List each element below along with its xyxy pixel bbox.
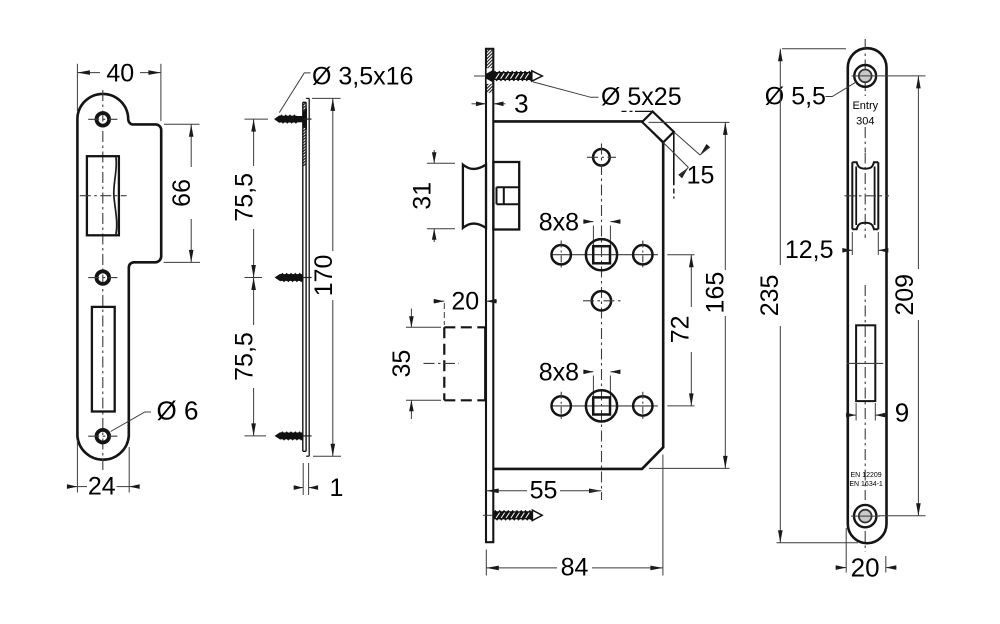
screw S5 threads: [493, 510, 542, 521]
strike plate lower slot cutout: [92, 307, 115, 412]
svg-text:235: 235: [756, 275, 784, 317]
dimension 235 extension lines: [777, 49, 859, 543]
label diameter 5x25: [601, 83, 682, 111]
faceplate latch top curve: [852, 162, 878, 169]
dimension 75,5 upper line: [251, 119, 256, 277]
svg-text:165: 165: [702, 272, 730, 314]
follower F1 horizontal line: [551, 254, 658, 256]
svg-text:24: 24: [88, 473, 116, 501]
label diameter 6: [157, 396, 199, 426]
dimension 170 extension lines: [312, 98, 341, 456]
screw S2 threads: [275, 273, 304, 282]
hole H1 crosshair: [587, 156, 616, 158]
strike plate outline: [77, 94, 161, 460]
dimension 15 extension lines: [663, 132, 700, 167]
follower F2 circle: [586, 390, 617, 421]
dimension 72 label: [666, 315, 694, 343]
label diameter 3,5x16: [312, 63, 413, 91]
svg-text:Ø 5,5: Ø 5,5: [765, 83, 826, 111]
svg-text:12,5: 12,5: [785, 236, 834, 264]
dimension 35 extension lines: [406, 327, 441, 400]
dimension 15 arrows: [678, 144, 710, 178]
dimension 75,5 lower line: [251, 278, 256, 436]
screw hole top crosshair: [88, 118, 117, 120]
dimension 1 extension lines: [303, 463, 308, 495]
faceplate latch crosshair: [845, 195, 890, 197]
svg-text:209: 209: [891, 274, 919, 316]
dimension 1 line: [294, 485, 318, 490]
faceplate latch bottom curve: [852, 223, 878, 230]
dimension 235 label: [756, 275, 784, 317]
follower F2 square: [593, 397, 610, 414]
dimension 66 extension lines: [164, 124, 201, 262]
dimension 20 bottom extension lines: [846, 528, 886, 573]
latch head: [463, 165, 486, 228]
dimension 165 line: [723, 122, 728, 468]
screw S5 centerline tick: [483, 514, 495, 516]
follower F2 horizontal line: [551, 405, 658, 407]
dimension 20 arrows: [433, 299, 497, 304]
svg-text:55: 55: [530, 476, 558, 504]
dimension 20 bottom label: [851, 552, 880, 582]
corner cut ghost vertical line: [673, 132, 675, 199]
follower F1 right circle centerline: [642, 241, 644, 270]
follower F1 square extension lines: [593, 226, 610, 246]
dimension 75,5 lower extension line: [245, 435, 267, 437]
screw S2 axis tick: [303, 277, 311, 279]
dimension 24 line: [67, 484, 140, 489]
screw hole middle crosshair: [88, 277, 117, 279]
dimension 75,5 upper extension lines: [245, 119, 269, 277]
svg-text:8x8: 8x8: [539, 209, 579, 237]
corner piece (15x15 chamfer): [642, 112, 674, 143]
dimension 40 extension lines: [77, 64, 160, 121]
dimension 12,5 arrows: [842, 248, 888, 253]
screw S4 threads: [493, 71, 543, 82]
strike plate latch cutout centerline: [80, 195, 127, 197]
dimension 165 label: [702, 272, 730, 314]
screw S3 axis tick: [303, 435, 311, 437]
label diameter 6 leader: [111, 412, 151, 432]
faceplate section hatch: [487, 43, 493, 99]
svg-text:304: 304: [856, 115, 874, 127]
svg-text:72: 72: [666, 315, 694, 343]
follower F2 left circle centerline: [560, 392, 562, 421]
dimension 209 label: [891, 274, 919, 316]
svg-text:75,5: 75,5: [231, 173, 259, 222]
screw S1 head: [303, 108, 307, 129]
dimension 165 bottom extension line: [649, 467, 730, 469]
svg-text:84: 84: [561, 553, 589, 581]
dimension 31 extension lines: [427, 163, 455, 228]
label EN 1634-1: [849, 481, 883, 488]
dimension 72 line: [689, 255, 694, 406]
dimension 235 line: [778, 49, 783, 543]
deadbolt centerline: [424, 362, 460, 364]
dimension 3 line: [472, 102, 506, 107]
latch body: [493, 162, 519, 230]
side view body plate profile: [303, 102, 306, 451]
svg-text:Entry: Entry: [852, 100, 878, 112]
svg-text:75,5: 75,5: [231, 332, 259, 381]
side view lip plate profile: [306, 98, 309, 456]
svg-text:66: 66: [168, 179, 196, 207]
screw hole top: [97, 113, 110, 126]
faceplate front plate: [486, 49, 493, 542]
dimension 84 line: [486, 566, 663, 571]
screw S3 threads: [275, 431, 304, 440]
dimension 8x8 upper arrows: [583, 219, 620, 224]
corner cut ghost top line: [622, 110, 653, 112]
screw S4 head: [486, 70, 493, 82]
dimension 66 line: [189, 124, 194, 262]
screw hole bottom: [97, 430, 110, 443]
lock case outline: [493, 121, 663, 469]
faceplate latch body sides: [856, 167, 874, 226]
dimension 165 top extension line: [649, 121, 730, 123]
dimension 24 extension lines: [77, 440, 129, 493]
follower F2 right circle centerline: [642, 392, 644, 421]
dimension 75,5 upper label: [231, 173, 259, 222]
dimension 72 extension lines: [667, 255, 694, 406]
strike plate latch cutout: [87, 156, 119, 235]
dimension 35 label: [388, 350, 416, 378]
svg-text:20: 20: [451, 288, 479, 316]
screw S1 threads: [274, 114, 298, 123]
faceplate screw hole bottom crosshair: [851, 515, 880, 517]
faceplate latch cutout sides: [852, 162, 878, 229]
label diameter 5,5 leader: [826, 82, 857, 97]
follower F2 square extension lines: [593, 376, 610, 397]
screw hole bottom crosshair: [88, 435, 117, 437]
dimension 20 extension line: [443, 303, 445, 325]
hole H1 top: [593, 149, 610, 166]
svg-text:EN 1634-1: EN 1634-1: [849, 481, 883, 488]
dimension 55 label: [530, 476, 558, 504]
svg-text:20: 20: [851, 552, 880, 582]
main vertical centerline view3: [601, 144, 603, 501]
svg-text:1: 1: [330, 474, 344, 502]
dimension 9 extension lines: [856, 403, 875, 421]
hole H2 middle: [592, 291, 611, 310]
dimension 12,5 extension lines: [852, 232, 878, 255]
dimension 31 label: [409, 182, 437, 210]
screw S1 axis tick: [303, 118, 311, 120]
dimension 55 line: [486, 489, 601, 494]
dimension 1 label: [330, 474, 344, 502]
dimension 84 label: [561, 553, 589, 581]
follower F1 left circle: [552, 245, 571, 264]
faceplate screw hole bottom: [854, 505, 876, 527]
label EN 12209: [851, 472, 882, 479]
dimension 170 label: [310, 255, 338, 297]
svg-text:9: 9: [895, 398, 909, 428]
svg-text:31: 31: [409, 182, 437, 210]
follower F1 circle: [586, 239, 617, 270]
dimension 20 label: [451, 288, 479, 316]
faceplate outline: [848, 48, 887, 543]
faceplate screw hole top crosshair: [852, 75, 889, 77]
dimension 9 arrows: [846, 413, 886, 418]
dimension 209 extension line top: [888, 75, 926, 77]
latch stem: [497, 187, 520, 204]
dimension 24 label: [88, 473, 116, 501]
dimension 3 label: [514, 88, 528, 118]
dimension 8x8 lower label: [539, 359, 579, 387]
follower F1 left circle centerline: [560, 241, 562, 270]
dimension 209 line: [916, 76, 921, 516]
svg-text:EN 12209: EN 12209: [851, 472, 882, 479]
faceplate deadbolt cutout: [856, 325, 875, 401]
svg-text:8x8: 8x8: [539, 359, 579, 387]
hole H2 crosshair: [583, 300, 621, 302]
svg-text:15: 15: [687, 162, 715, 190]
label diameter 5x25 leader: [533, 82, 599, 97]
faceplate screw hole top: [854, 65, 876, 87]
dimension 31 line: [432, 150, 437, 242]
dimension 40 line: [77, 70, 160, 75]
strike plate vertical centerline: [102, 90, 104, 471]
deadbolt dashed outline: [444, 327, 485, 400]
screw S4 head white gap: [487, 68, 492, 84]
svg-text:Ø 6: Ø 6: [157, 396, 199, 426]
faceplate vertical centerline segments: [864, 39, 866, 552]
label diameter 5,5: [765, 83, 826, 111]
svg-text:3: 3: [514, 88, 528, 118]
screw S1 shank: [296, 116, 303, 122]
dimension 35 line: [409, 309, 414, 420]
dimension 40 label: [106, 60, 134, 88]
label Entry 304: [852, 100, 878, 128]
dimension 20 bottom arrows: [836, 565, 897, 570]
dimension 15 label: [687, 162, 715, 190]
svg-text:Ø 5x25: Ø 5x25: [601, 83, 682, 111]
svg-text:170: 170: [310, 255, 338, 297]
label diameter 3,5x16 leader: [279, 73, 310, 113]
screw S4 centerline tick: [474, 75, 487, 77]
dimension 9 label: [895, 398, 909, 428]
svg-text:35: 35: [388, 350, 416, 378]
screw hole middle: [97, 271, 110, 284]
dimension 84 extension lines: [486, 455, 663, 576]
dimension 209 extension line bottom: [879, 515, 926, 517]
dimension 8x8 upper label: [539, 209, 579, 237]
faceplate deadbolt level line: [847, 362, 883, 364]
follower F2 left circle: [552, 396, 571, 415]
dimension 75,5 lower label: [231, 332, 259, 381]
follower F1 square: [593, 246, 610, 263]
follower F2 right circle: [633, 396, 652, 415]
svg-text:Ø 3,5x16: Ø 3,5x16: [312, 63, 413, 91]
strike plate latch cutout break line: [114, 157, 117, 234]
follower F1 right circle: [633, 245, 652, 264]
dimension 66 label: [168, 179, 196, 207]
side view plate section hatch: [303, 100, 306, 170]
dimension 12,5 label: [785, 236, 834, 264]
dimension 170 line: [331, 98, 336, 456]
dimension 8x8 lower arrows: [583, 370, 620, 375]
svg-text:40: 40: [106, 60, 134, 88]
